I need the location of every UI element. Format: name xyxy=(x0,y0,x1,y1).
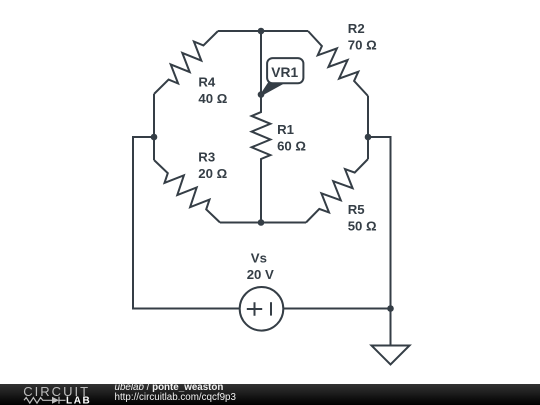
resistor R3 xyxy=(154,160,220,223)
wire bottom node to R5 xyxy=(261,222,306,224)
wire left rail from left node to Vs xyxy=(133,137,240,309)
ground symbol xyxy=(372,346,410,365)
svg-text:20 V: 20 V xyxy=(247,267,274,282)
wire R5 top lead to right node xyxy=(367,137,369,159)
wire R4 bottom lead to left node xyxy=(153,94,155,137)
svg-text:R3: R3 xyxy=(198,149,215,164)
wire top node to VR1 tap node xyxy=(260,31,262,95)
node ground junction xyxy=(387,305,394,312)
voltage source Vs circle xyxy=(240,287,284,331)
Vs plus sign xyxy=(247,302,262,315)
svg-text:R1: R1 xyxy=(277,122,294,137)
wire right node to right rail xyxy=(368,137,391,309)
svg-text:40 Ω: 40 Ω xyxy=(198,91,227,106)
wire left node to R3 xyxy=(153,137,155,160)
svg-text:VR1: VR1 xyxy=(271,65,298,80)
node top junction xyxy=(258,28,265,35)
Vs minus bar xyxy=(270,302,272,315)
resistor R2 xyxy=(308,31,368,96)
footer credit text xyxy=(114,383,116,385)
svg-text:LAB: LAB xyxy=(66,395,91,405)
node bottom junction xyxy=(258,219,265,226)
wire R3 to bottom node xyxy=(220,222,261,224)
node left junction xyxy=(151,134,158,141)
probe VR1 callout box xyxy=(267,58,303,83)
node VR1 tap junction xyxy=(258,91,265,98)
wire ground stub xyxy=(390,309,392,346)
svg-text:R2: R2 xyxy=(348,21,365,36)
resistor R5 xyxy=(306,159,368,223)
wire Vs to ground node xyxy=(284,308,391,310)
footer bar xyxy=(0,384,540,405)
svg-text:Vs: Vs xyxy=(251,250,267,265)
resistor R4 xyxy=(154,31,218,94)
wire R2 bottom lead to right node xyxy=(367,96,369,137)
probe VR1 callout pointer xyxy=(261,82,283,95)
svg-text:60 Ω: 60 Ω xyxy=(277,139,306,154)
svg-text:R4: R4 xyxy=(198,75,216,90)
svg-text:R5: R5 xyxy=(348,202,365,217)
resistor R1 xyxy=(252,95,271,223)
node right junction xyxy=(365,134,372,141)
svg-text:20 Ω: 20 Ω xyxy=(198,166,227,181)
svg-text:70 Ω: 70 Ω xyxy=(348,38,377,53)
wire top horizontal xyxy=(218,30,308,32)
CircuitLab logo xyxy=(0,384,95,405)
svg-text:50 Ω: 50 Ω xyxy=(348,218,377,233)
